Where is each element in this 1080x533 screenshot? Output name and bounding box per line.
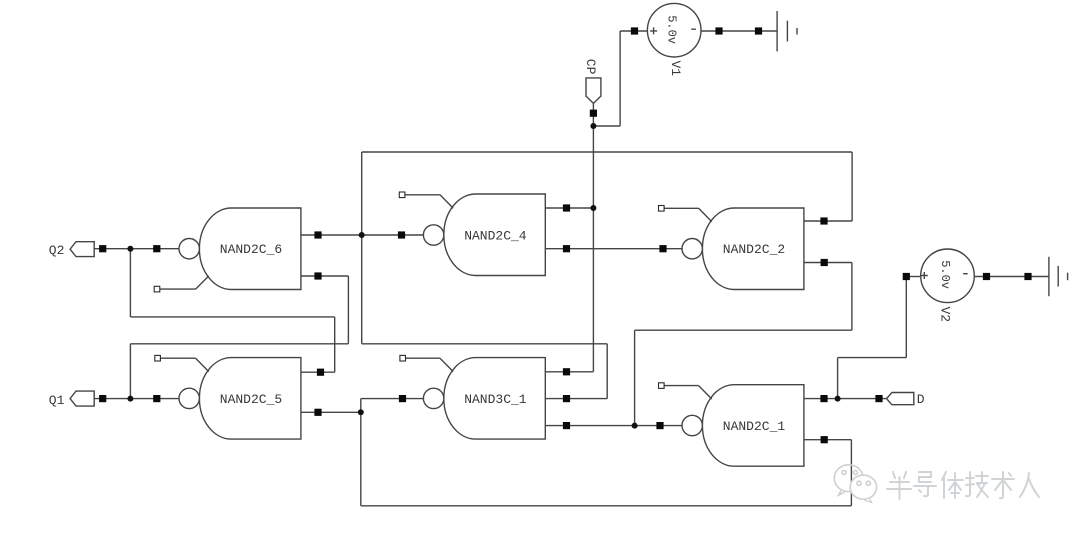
- junction dot net D: [835, 396, 841, 402]
- wire V1 minus to ground: [701, 30, 777, 32]
- wire net D horizontal: [838, 357, 907, 359]
- pin marker V1 plus: [631, 27, 638, 34]
- pin marker V1 minus a: [715, 27, 722, 34]
- junction dot net Q1: [127, 396, 133, 402]
- wire NAND2C_6 pin2 stub: [301, 275, 349, 277]
- svg-text:V2: V2: [938, 307, 953, 323]
- wire NAND2C_5 pin1 stub: [301, 371, 335, 373]
- wire net Q2 horizontal: [130, 316, 334, 318]
- junction dot net C at NAND2C_1 output: [632, 423, 638, 429]
- wire net C right vertical: [851, 263, 853, 331]
- watermark text ti: [942, 472, 963, 498]
- watermark text ji: [966, 472, 988, 497]
- ground symbol for V1 bar1: [776, 11, 778, 51]
- pin marker NAND2C_6 pin1: [314, 231, 321, 238]
- wire net A top horizontal: [362, 151, 852, 153]
- junction dot net E at NAND2C_5 pin2: [358, 409, 364, 415]
- NAND gate NAND2C_5 body: [155, 355, 301, 439]
- wire Q2 to NAND2C_6 output: [94, 248, 179, 250]
- pin marker NAND2C_2 pin2: [821, 259, 828, 266]
- wire net A vertical left: [361, 152, 363, 344]
- NAND gate NAND2C_1 body: [659, 383, 804, 466]
- svg-text:NAND2C_2: NAND2C_2: [723, 242, 785, 257]
- NAND gate NAND2C_4 body: [399, 192, 545, 276]
- port Q2 symbol: [70, 242, 94, 257]
- wire NAND2C_4 output to NAND2C_6 pin1: [301, 234, 424, 236]
- wire net E vertical left: [360, 399, 362, 506]
- pin marker Q2 a: [99, 245, 106, 252]
- wire NAND2C_5 pin2 stub: [301, 411, 361, 413]
- wire NAND2C_1 pin1 to D port: [804, 398, 887, 400]
- watermark wechat logo small bubble: [850, 475, 876, 502]
- wire V2 plus terminal: [906, 276, 920, 278]
- wire net CP to V1 plus terminal: [620, 30, 647, 32]
- wire net D vertical to V2: [905, 277, 907, 358]
- watermark wechat logo big bubble: [834, 465, 863, 495]
- svg-text:NAND3C_1: NAND3C_1: [464, 392, 527, 407]
- pin marker NAND2C_4 pin1: [563, 204, 570, 211]
- wire net A vertical to NAND3C_1 pin2: [606, 344, 608, 399]
- wire NAND2C_2 pin2 stub: [804, 262, 852, 264]
- wire net E bottom horizontal: [361, 505, 852, 507]
- junction dot net CP at NAND2C_4 pin1: [590, 205, 596, 211]
- pin marker NAND2C_4 pin2: [563, 245, 570, 252]
- svg-text:5.0v: 5.0v: [938, 260, 952, 289]
- pin marker NAND2C_6 pin2: [314, 272, 321, 279]
- wire net CP branch to V1 horizontal: [593, 125, 620, 127]
- watermark text dao: [914, 472, 936, 496]
- wire net CP branch to V1 vertical: [619, 31, 621, 126]
- wire net D vertical: [837, 358, 839, 399]
- svg-text:CP: CP: [583, 59, 598, 75]
- pin marker NAND2C_2 pin1: [820, 217, 827, 224]
- port CP symbol: [586, 78, 601, 104]
- junction dot net A: [359, 232, 365, 238]
- ground symbol for V2 bar3: [1067, 273, 1069, 281]
- watermark text ban: [887, 472, 911, 499]
- pin marker NAND2C_1 pin2: [821, 436, 828, 443]
- wire NAND2C_2 output to NAND2C_4 pin2: [545, 248, 682, 250]
- wire net Q2 vertical to NAND2C_5 pin1: [334, 317, 336, 372]
- wire net E right vertical: [850, 440, 852, 506]
- V2 minus sign: [963, 273, 968, 275]
- V1 plus sign: [650, 27, 657, 34]
- pin marker NAND2C_5 pin1: [317, 369, 324, 376]
- voltage source V1 circle: [647, 3, 701, 57]
- pin marker V2 minus a: [983, 273, 990, 280]
- wire Q1 to NAND2C_5 output: [94, 398, 179, 400]
- pin marker NAND3C_1 pin3: [563, 422, 570, 429]
- wire net A right vertical: [851, 152, 853, 221]
- pin marker NAND2C_4 output: [398, 231, 405, 238]
- svg-text:V1: V1: [668, 61, 683, 77]
- pin marker V2 plus: [903, 273, 910, 280]
- svg-text:Q2: Q2: [49, 243, 65, 258]
- pin marker Q1 a: [99, 395, 106, 402]
- wire net A middle horizontal: [362, 343, 608, 345]
- V1 minus sign: [691, 28, 696, 30]
- ground symbol for V1 bar3: [796, 28, 798, 35]
- ground symbol for V2 bar1: [1048, 257, 1050, 296]
- wire net C vertical to NAND2C_1 output: [634, 330, 636, 425]
- wire net CP vertical main: [592, 103, 594, 371]
- wire net C horizontal: [635, 329, 852, 331]
- wire NAND3C_1 pin1 stub: [545, 371, 593, 373]
- svg-text:D: D: [917, 392, 925, 407]
- pin marker NAND2C_5 pin2: [314, 409, 321, 416]
- pin marker Q2 b: [153, 245, 160, 252]
- wire NAND2C_1 pin2 stub: [804, 439, 852, 441]
- pin marker NAND2C_2 input: [659, 245, 666, 252]
- wire NAND3C_1 output left: [361, 398, 424, 400]
- junction dot net CP at V1 branch: [590, 123, 596, 129]
- wire V2 minus to ground: [974, 276, 1049, 278]
- wire net Q1 vertical: [129, 344, 131, 399]
- pin marker NAND3C_1 output: [399, 395, 406, 402]
- NAND gate NAND3C_1 body: [400, 355, 545, 439]
- ground symbol for V1 bar2: [786, 21, 788, 42]
- svg-text:5.0v: 5.0v: [665, 15, 679, 44]
- pin marker NAND2C_1 input: [656, 422, 663, 429]
- svg-text:Q1: Q1: [49, 393, 65, 408]
- wire net Q1 vertical to NAND2C_6 pin2: [347, 276, 349, 344]
- svg-text:NAND2C_1: NAND2C_1: [723, 419, 786, 434]
- pin marker V2 minus b: [1024, 273, 1031, 280]
- wire NAND2C_4 pin1 stub: [545, 207, 593, 209]
- pin marker CP: [590, 110, 597, 117]
- port Q1 symbol: [70, 391, 94, 406]
- pin marker D port: [875, 395, 882, 402]
- wire NAND3C_1 pin2 stub: [545, 398, 607, 400]
- pin marker NAND3C_1 pin1: [563, 368, 570, 375]
- port D symbol: [887, 393, 914, 405]
- pin marker NAND2C_1 pin1: [820, 395, 827, 402]
- NAND gate NAND2C_2 body: [659, 206, 804, 290]
- watermark text shu: [992, 472, 1014, 498]
- voltage source V2 circle: [921, 249, 975, 303]
- V2 plus sign: [921, 272, 928, 279]
- pin marker Q1 b: [153, 395, 160, 402]
- svg-text:NAND2C_6: NAND2C_6: [220, 242, 282, 257]
- svg-text:NAND2C_4: NAND2C_4: [464, 229, 527, 244]
- svg-text:NAND2C_5: NAND2C_5: [220, 392, 282, 407]
- ground symbol for V2 bar2: [1057, 266, 1059, 287]
- wire NAND2C_1 output to NAND3C_1 pin3: [545, 425, 682, 427]
- watermark text ren: [1020, 473, 1039, 497]
- NAND gate NAND2C_6 body: [154, 208, 301, 292]
- wire NAND2C_2 pin1 stub: [804, 220, 852, 222]
- pin marker V1 minus b: [755, 27, 762, 34]
- junction dot net Q2: [127, 246, 133, 252]
- wire net Q1 horizontal: [130, 343, 348, 345]
- pin marker NAND3C_1 pin2: [563, 395, 570, 402]
- wire net Q2 vertical: [129, 249, 131, 317]
